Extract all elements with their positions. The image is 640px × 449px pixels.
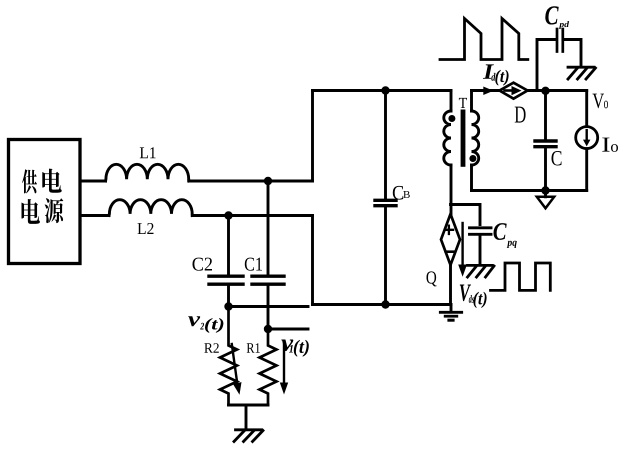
resistor R1 — [260, 329, 277, 405]
node top wire junction — [264, 177, 272, 185]
capacitor Cpd — [557, 29, 563, 52]
chassis ground bottom — [234, 430, 263, 442]
wire L1 to converter — [189, 180, 313, 183]
node v2 junction — [224, 302, 232, 310]
label R2 — [204, 343, 219, 353]
label C — [552, 151, 562, 166]
wire Q to bottom rail — [449, 265, 452, 305]
transformer secondary phasing dot — [469, 155, 476, 162]
wire bottom rail — [313, 303, 452, 306]
plus sign in Q — [445, 226, 453, 234]
waveform Vds square wave — [491, 263, 551, 290]
capacitor CB — [375, 91, 396, 305]
waveform Id sawtooth pulses — [440, 19, 528, 60]
wire top rail — [313, 89, 452, 92]
resistor R2 — [220, 307, 237, 406]
node bottom output junction — [541, 186, 549, 194]
wire Cpd left branch — [537, 40, 556, 91]
label 电 line2 — [22, 199, 40, 224]
wire v2 tap — [229, 305, 309, 308]
transformer primary phasing dot — [448, 115, 455, 122]
wire C1 branch — [267, 181, 270, 275]
transformer primary winding — [444, 91, 451, 215]
label Q — [427, 271, 437, 286]
wire box to L1 — [80, 180, 106, 183]
wire left vertical to bottom rail — [311, 216, 314, 305]
label C1 — [245, 258, 262, 271]
node CB top — [381, 86, 389, 94]
transformer secondary winding — [472, 91, 479, 191]
wire ground stub — [245, 405, 248, 429]
label Cpq — [494, 223, 517, 248]
wire diode to output node — [528, 89, 587, 92]
wire box to L2 — [80, 214, 109, 217]
inductor L2 — [109, 200, 193, 216]
arrow through R2 — [232, 344, 242, 395]
label v2(t) — [188, 316, 223, 333]
diode arrow inside D — [505, 86, 522, 95]
minus sign in Q — [446, 250, 455, 253]
capacitor Cpq — [470, 228, 492, 264]
node output capacitor junction — [541, 87, 549, 95]
label Vo — [593, 94, 609, 109]
current source Io — [576, 127, 598, 149]
wire output bottom rail — [472, 189, 587, 192]
label CB — [393, 186, 410, 200]
node CB bottom — [381, 300, 389, 308]
current direction arrow Id — [483, 87, 493, 96]
wire left vertical to top rail — [311, 91, 314, 182]
wire v1 tap — [268, 328, 308, 331]
capacitor C1 — [252, 276, 284, 329]
arrow v1 beside R1 — [280, 342, 288, 395]
wire output right vertical bottom — [585, 149, 588, 191]
signal ground triangle — [537, 191, 554, 209]
label T — [459, 98, 467, 108]
wire Cpd right branch — [564, 40, 581, 67]
wire output right vertical top — [585, 91, 588, 127]
label R1 — [247, 343, 260, 353]
label Cpd — [545, 6, 569, 29]
node v1 junction — [264, 325, 272, 333]
label Vds(t) — [460, 285, 487, 309]
arrow Vds — [458, 223, 467, 277]
dependent source Q diamond — [441, 214, 460, 265]
label L2 — [138, 223, 154, 234]
capacitor C2 — [209, 276, 243, 306]
label D — [515, 107, 526, 123]
diode D dependent source diamond — [500, 83, 528, 99]
capacitor C — [535, 91, 556, 191]
wire L2 to converter — [192, 214, 312, 217]
power supply box — [9, 140, 81, 264]
label 供 — [22, 169, 37, 193]
label Io — [602, 138, 618, 152]
wire Cpq branch — [451, 205, 481, 225]
wire resistor bottom rail — [229, 404, 269, 407]
label 源 — [45, 198, 64, 223]
label C2 — [193, 258, 213, 271]
node bottom wire junction — [224, 211, 232, 219]
label v1(t) — [281, 339, 309, 356]
label 电 line1 — [42, 169, 61, 193]
wire secondary top to diode — [472, 89, 500, 92]
inductor L1 — [106, 164, 190, 181]
chassis ground of Cpd — [568, 67, 596, 79]
ground under Q — [440, 305, 461, 321]
chassis ground under Cpq — [468, 265, 495, 277]
transformer core — [461, 110, 466, 167]
wire C2 branch — [227, 216, 230, 275]
label Id(t) — [483, 64, 509, 85]
label L1 — [140, 147, 156, 158]
